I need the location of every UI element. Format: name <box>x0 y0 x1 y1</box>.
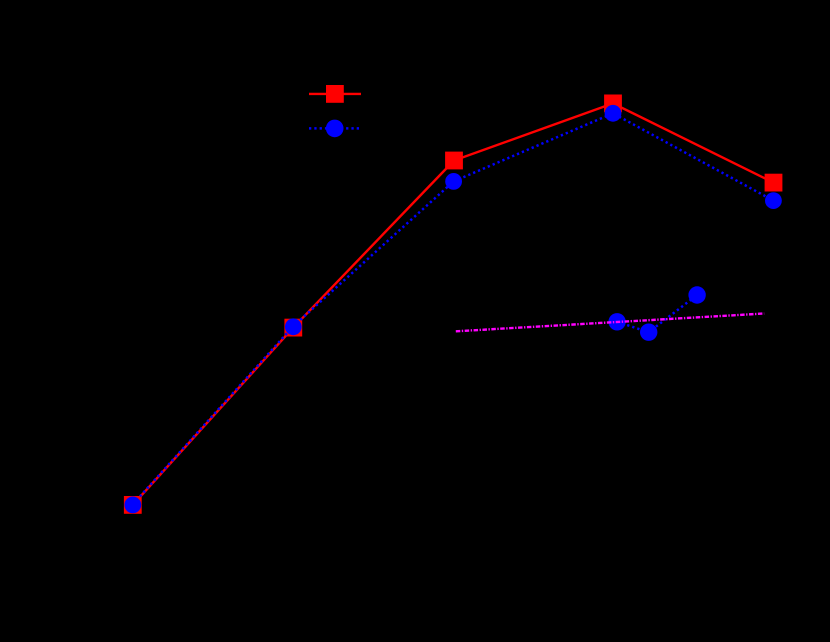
blue circle marker P4 <box>605 105 622 122</box>
blue circle marker P3 <box>445 173 462 190</box>
red square marker P4 <box>604 95 622 113</box>
inset blue circle 2 <box>640 324 657 341</box>
blue circle marker P2 <box>285 318 302 335</box>
inset blue circle 3 <box>688 286 705 303</box>
blue circle marker P1 <box>124 497 141 514</box>
legend red line <box>309 93 361 95</box>
red square marker P2 <box>284 319 302 337</box>
legend blue dotted line <box>309 127 361 130</box>
red square marker P5 <box>765 174 783 192</box>
inset blue dotted line <box>617 295 697 332</box>
magenta dash-dot fit line <box>456 314 764 332</box>
inset blue circle 1 <box>608 313 625 330</box>
blue circle marker P5 <box>765 192 782 209</box>
red square marker P3 <box>445 152 463 170</box>
legend blue circle marker <box>326 120 344 138</box>
legend red square marker <box>326 85 344 103</box>
blue dotted series line <box>133 113 774 504</box>
red series line <box>133 103 774 505</box>
red square marker P1 <box>124 496 142 514</box>
